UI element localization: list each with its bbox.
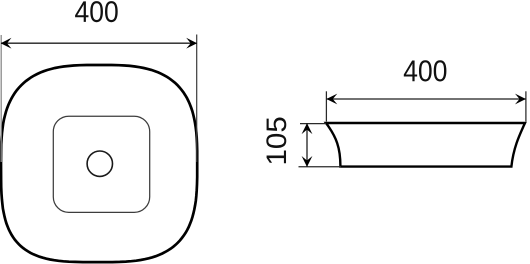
top view: dimension arrowhead right	[186, 38, 197, 49]
side view: top extension line for height	[300, 123, 326, 125]
top view: basin inner bottom (rounded square)	[53, 116, 149, 212]
top view: dimension label 400	[75, 1, 118, 22]
side view: dimension label 105	[266, 118, 286, 164]
side view: width arrowhead right	[515, 94, 526, 105]
top view: left extension line	[0, 35, 2, 162]
top view: dimension arrowhead left	[1, 38, 12, 49]
side view: height arrowhead down	[302, 156, 313, 167]
side view: width dimension line	[327, 98, 526, 100]
top view: right extension line	[196, 35, 198, 163]
side view: dimension label 400	[404, 60, 447, 81]
top view: width dimension line	[1, 42, 197, 44]
side view: basin profile outline	[326, 123, 525, 167]
side view: height arrowhead up	[302, 123, 313, 134]
side view: height dimension line	[306, 123, 308, 166]
side view: right extension line for width	[525, 91, 527, 121]
side view: bottom extension line for height	[299, 166, 342, 168]
top view: drain hole	[87, 151, 112, 176]
top view: basin outer rim (superellipse)	[1, 65, 197, 262]
side view: left extension line for width	[325, 91, 327, 121]
side view: width arrowhead left	[326, 94, 337, 105]
